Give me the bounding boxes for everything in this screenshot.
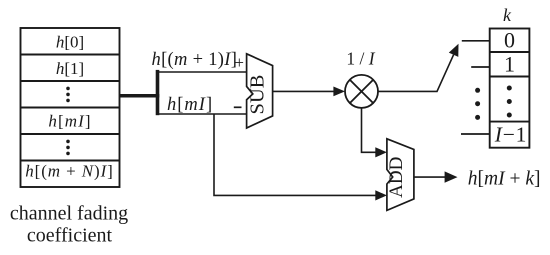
svg-text:channel fading: channel fading: [10, 203, 128, 225]
svg-text:h[mI]: h[mI]: [48, 111, 91, 130]
svg-text:h[(m + N)I]: h[(m + N)I]: [25, 162, 113, 181]
wire multiplier down to ADD: [362, 108, 377, 152]
svg-text:h[mI + k]: h[mI + k]: [468, 168, 541, 189]
svg-text:+: +: [235, 53, 244, 72]
selector tick 0: [462, 40, 490, 42]
arrowhead output: [445, 171, 458, 182]
svg-text:h[mI]: h[mI]: [167, 95, 213, 115]
arrowhead top into ADD: [375, 147, 387, 157]
cell vertical dots 1: [66, 87, 70, 103]
arrowhead bottom into ADD: [375, 190, 387, 200]
subtractor U1 SUB: [246, 54, 272, 128]
wire to SUB plus input: [158, 71, 247, 73]
wire to SUB minus input: [158, 113, 247, 115]
wire multiplier to bend: [379, 55, 454, 92]
svg-text:coefficient: coefficient: [27, 225, 113, 247]
svg-text:h[(m + 1)I]: h[(m + 1)I]: [152, 50, 238, 70]
svg-text:ADD: ADD: [386, 157, 407, 198]
arrowhead to selector: [449, 44, 459, 57]
svg-text:I−1: I−1: [494, 123, 527, 147]
wire ADD output: [414, 176, 446, 178]
selector dots: [475, 88, 480, 120]
svg-text:1: 1: [504, 52, 515, 77]
k table outline: [490, 29, 530, 148]
svg-text:h[0]: h[0]: [56, 33, 84, 52]
thick bus wire vertical: [156, 70, 160, 115]
k table dots: [507, 86, 512, 118]
wire minus-tap down to ADD: [214, 114, 376, 195]
svg-text:0: 0: [504, 28, 515, 53]
multiplier M1: [345, 75, 378, 108]
minus sign: [234, 106, 242, 108]
svg-text:h[1]: h[1]: [56, 59, 84, 78]
cell vertical dots 2: [66, 140, 70, 156]
coefficient table outline: [21, 28, 120, 187]
wire SUB to multiplier: [273, 90, 334, 92]
svg-text:SUB: SUB: [246, 75, 268, 115]
svg-text:1 / I: 1 / I: [346, 48, 375, 68]
arrowhead into multiplier: [333, 87, 345, 97]
adder U2 ADD: [386, 139, 414, 211]
selector tick I-1: [461, 133, 490, 135]
thick bus wire horizontal: [120, 94, 160, 98]
svg-text:k: k: [503, 5, 512, 25]
selector tick 1: [471, 66, 490, 68]
